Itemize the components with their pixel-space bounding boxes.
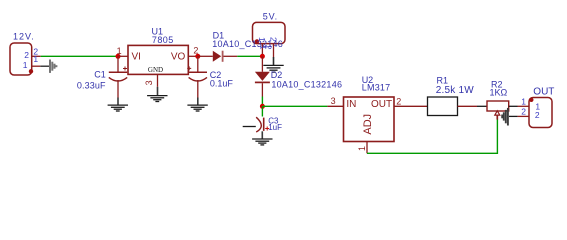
svg-text:1: 1 (33, 54, 38, 64)
svg-text:12V.: 12V. (13, 31, 35, 41)
OUT pin 2 lead (518, 115, 529, 117)
wire D1 to junction (237, 55, 260, 57)
svg-text:VO: VO (171, 51, 186, 62)
ground (gray, sideways) at P1 pin 1 (40, 60, 56, 73)
regulator U2 labels (362, 75, 391, 93)
connector P1 pin 1 (32, 54, 41, 66)
svg-text:2.5k 1W: 2.5k 1W (436, 85, 474, 96)
ground (earth) at P2 pin 2 (263, 57, 283, 72)
svg-text:3: 3 (144, 80, 154, 85)
node junction D1 / 5V / D2 (260, 54, 265, 59)
resistor R1 labels (436, 75, 474, 95)
connector P1 12V label (13, 31, 35, 41)
svg-text:1uF: 1uF (268, 123, 282, 132)
svg-text:ADJ: ADJ (362, 114, 374, 135)
capacitor C1 (109, 56, 127, 97)
svg-text:0.33uF: 0.33uF (77, 80, 106, 90)
connector P3 OUT body (521, 96, 552, 127)
connector P2 pin 1 lead (258, 44, 268, 54)
regulator U2 body (344, 97, 395, 142)
svg-text:OUT: OUT (533, 87, 554, 98)
svg-text:2: 2 (535, 110, 540, 120)
capacitor C3 (243, 117, 270, 132)
wire junction down to C3 (261, 106, 263, 116)
svg-text:2: 2 (24, 50, 29, 60)
svg-text:2: 2 (396, 96, 401, 106)
svg-text:3: 3 (331, 96, 336, 106)
potentiometer R2 labels (490, 79, 508, 97)
svg-text:VI: VI (132, 51, 141, 62)
wire D2 to junction (261, 97, 263, 107)
capacitor C2 labels (210, 70, 234, 88)
U1 pin 1 lead (117, 46, 128, 57)
U2 pin 1 (ADJ) lead (357, 142, 367, 154)
potentiometer R2 body (477, 101, 509, 120)
capacitor C1 labels (77, 69, 106, 90)
svg-text:OUT: OUT (371, 99, 392, 110)
svg-text:1KΩ: 1KΩ (490, 88, 508, 98)
U2 pin 3 lead (327, 96, 343, 106)
diode D2 labels (271, 70, 342, 89)
node junction at U1 VO / C2 / D1 (195, 54, 200, 59)
U1 pin 3 lead (144, 74, 157, 86)
svg-text:1: 1 (117, 46, 122, 56)
R1 right lead (458, 105, 478, 107)
svg-text:C1: C1 (94, 69, 106, 79)
resistor R1 body (428, 97, 458, 116)
svg-text:7805: 7805 (152, 35, 174, 45)
wire 12V pin2 to U1 VI (41, 55, 116, 57)
wire junction to U2 IN (262, 105, 327, 107)
R2 right lead to OUT pin 1 (509, 105, 529, 107)
node junction at U1 VI / C1 (116, 54, 121, 59)
svg-text:GND: GND (148, 66, 163, 74)
U2 pin 2 lead (394, 96, 428, 106)
node junction D2 / C3 / U2 IN (260, 104, 265, 109)
regulator U1 body (128, 45, 188, 74)
svg-text:1: 1 (357, 146, 367, 151)
diode D1 (198, 51, 238, 62)
connector P3 OUT label (533, 87, 554, 98)
capacitor C3 labels (268, 116, 282, 132)
wire ADJ to R2 wiper (367, 120, 497, 154)
svg-text:5V.: 5V. (263, 11, 278, 21)
connector P2 5V label (263, 11, 278, 21)
connector P1 pin 2 (32, 47, 41, 57)
connector P2 5V body (253, 22, 286, 43)
diode D1 labels (212, 31, 283, 49)
svg-text:1: 1 (521, 96, 526, 106)
connector P2 pin 2 lead (263, 44, 273, 58)
svg-text:10A10_C132146: 10A10_C132146 (271, 79, 342, 89)
svg-text:LM317: LM317 (362, 82, 391, 92)
ground under C2 (187, 98, 207, 112)
ground under C3 (252, 131, 272, 145)
diode D2 (255, 56, 270, 96)
ground (sideways) at OUT pin 2 (502, 108, 517, 126)
svg-text:0.1uF: 0.1uF (210, 79, 234, 89)
svg-text:2: 2 (263, 45, 273, 50)
svg-text:2: 2 (521, 107, 526, 117)
connector P1 12V body (10, 43, 33, 75)
capacitor C2 (187, 56, 207, 97)
ground under U1 pin 3 (147, 87, 167, 102)
svg-text:IN: IN (346, 99, 356, 110)
regulator U1 labels (152, 27, 174, 45)
svg-text:1: 1 (23, 60, 28, 70)
ground under C1 (108, 98, 128, 112)
U1 pin 2 lead (188, 45, 198, 56)
